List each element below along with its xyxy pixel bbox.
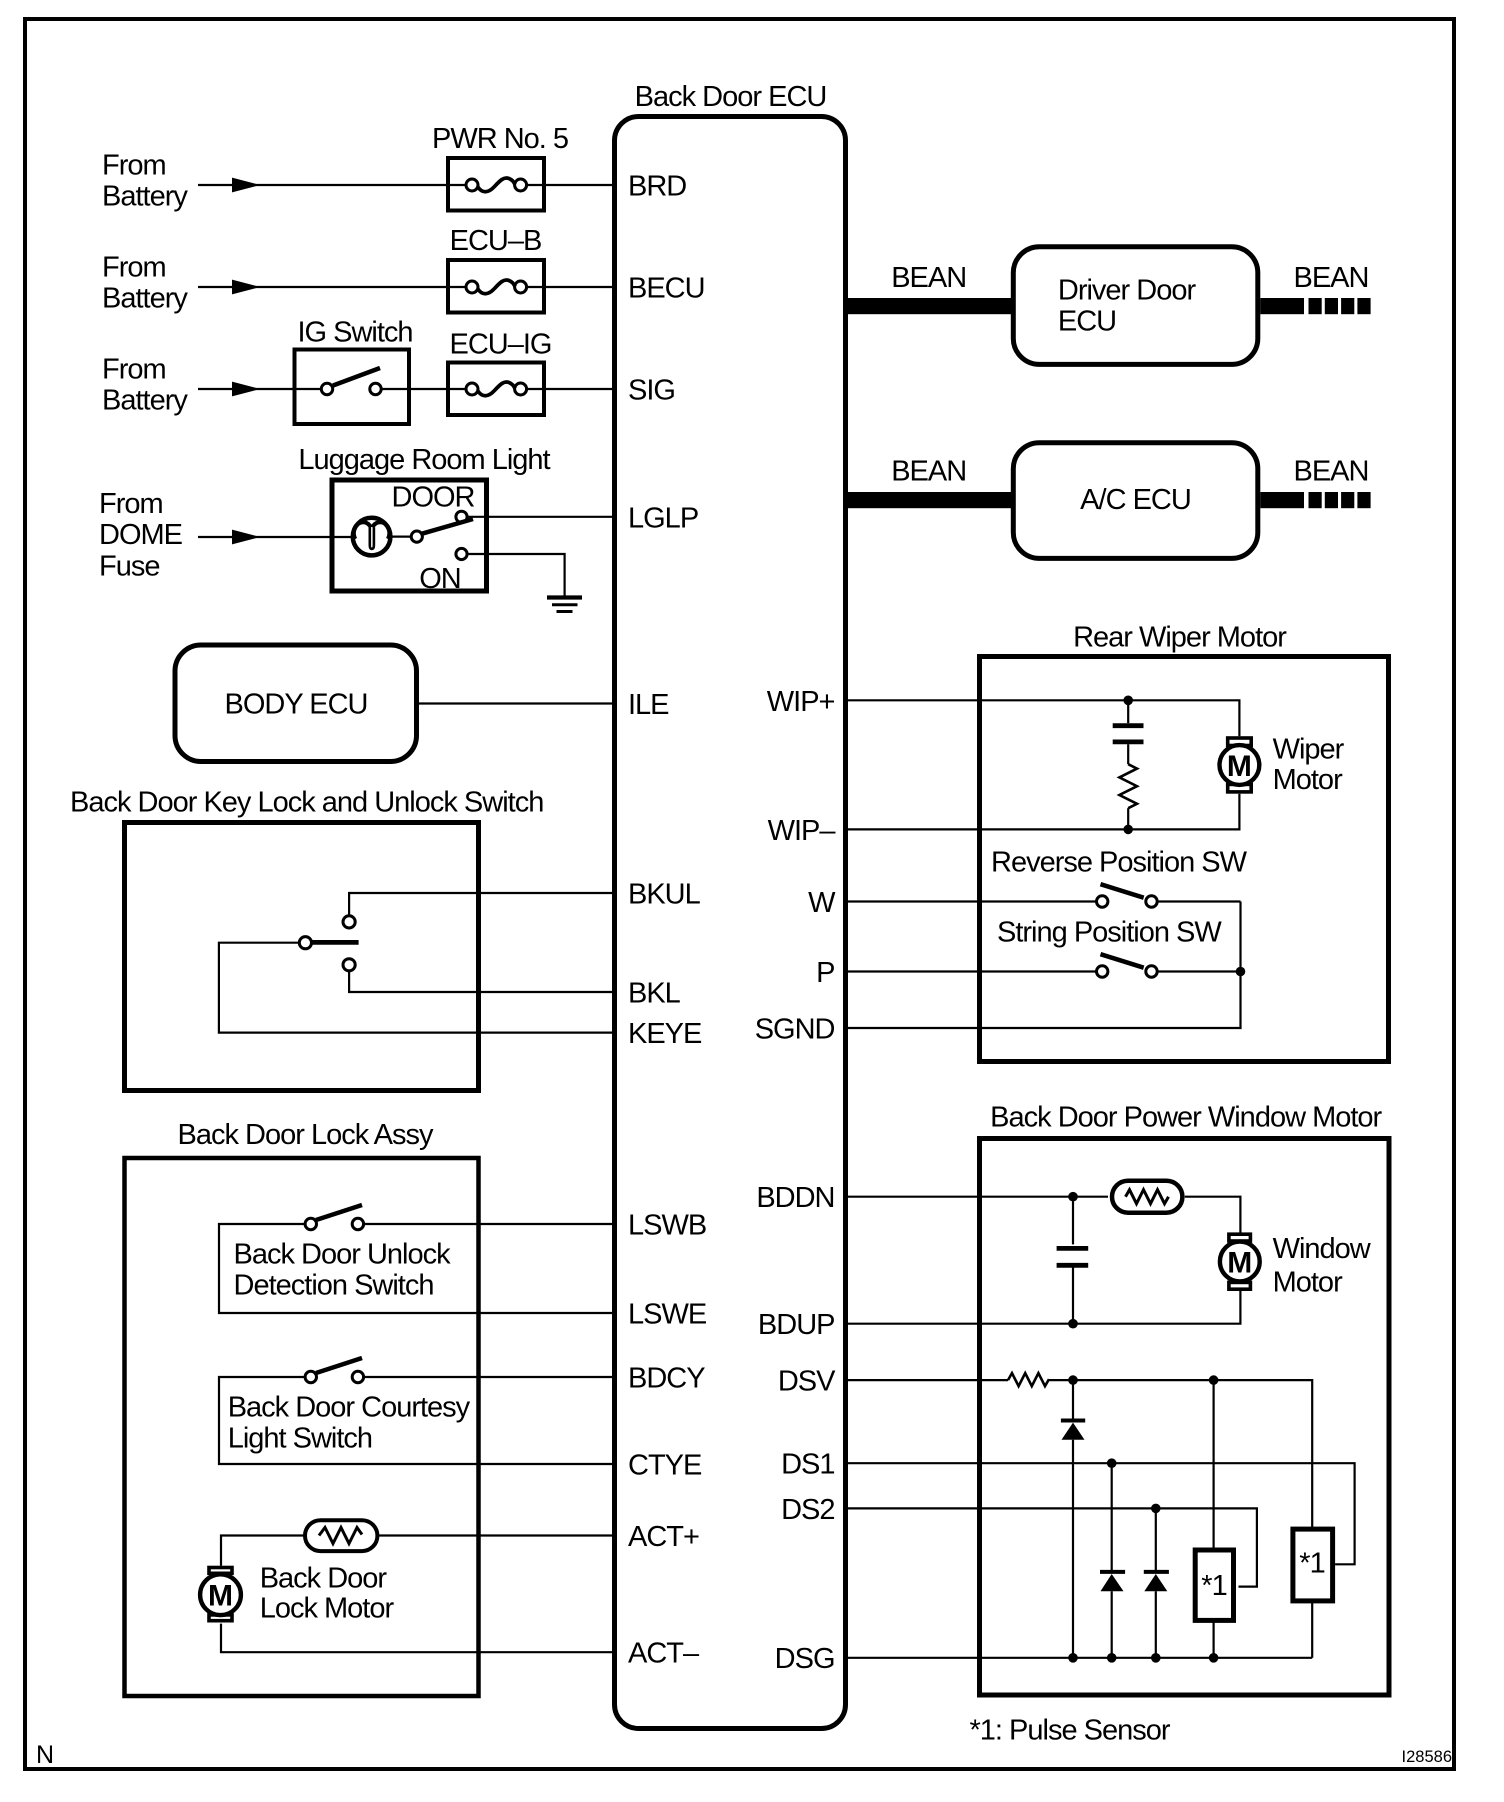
wire LGLP [467, 516, 614, 518]
svg-text:ECU–B: ECU–B [450, 225, 542, 257]
svg-text:BKUL: BKUL [628, 879, 701, 911]
svg-text:P: P [816, 957, 834, 989]
svg-text:BEAN: BEAN [891, 456, 966, 488]
svg-text:KEYE: KEYE [628, 1018, 702, 1050]
Body ECU box U2 [175, 645, 417, 762]
svg-text:DS1: DS1 [781, 1449, 834, 1481]
junction DSG / pulse sensor left [1209, 1653, 1219, 1663]
svg-text:WIP–: WIP– [768, 815, 837, 847]
luggage room light switch box [298, 444, 550, 595]
svg-text:BDDN: BDDN [756, 1182, 834, 1214]
lamp L1 luggage room light [353, 518, 391, 556]
svg-text:IG Switch: IG Switch [297, 317, 412, 349]
svg-text:LGLP: LGLP [628, 503, 698, 535]
wire LSWB [364, 1223, 615, 1225]
svg-text:DSV: DSV [778, 1366, 836, 1398]
junction DS1 / D2 [1107, 1458, 1117, 1468]
svg-text:Reverse Position SW: Reverse Position SW [991, 846, 1248, 878]
bus BEAN from ECU to Driver Door ECU [846, 298, 1012, 314]
wire ACT+ [221, 1536, 615, 1566]
switch S1 IG Switch [295, 317, 413, 425]
svg-text:BRD: BRD [628, 171, 686, 203]
ground [547, 598, 582, 612]
svg-text:Back Door Lock Assy: Back Door Lock Assy [178, 1119, 434, 1151]
rear wiper motor box [980, 622, 1389, 1062]
svg-text:From: From [102, 252, 166, 284]
wire battery to BECU [198, 280, 615, 295]
wire pulse sensor left feed [1212, 1380, 1214, 1550]
junction BDDN / C2 [1068, 1192, 1078, 1202]
svg-text:BODY ECU: BODY ECU [225, 689, 368, 721]
svg-text:Luggage Room Light: Luggage Room Light [298, 444, 550, 476]
bus BEAN from ECU to A/C ECU [846, 492, 1012, 508]
junction WIP+ / C1 [1123, 696, 1133, 706]
wire BKUL [349, 893, 614, 916]
junction BDUP / C2 [1068, 1319, 1078, 1329]
resistor R2 [1008, 1373, 1049, 1386]
svg-text:BEAN: BEAN [891, 262, 966, 294]
switch S2 key lock and unlock [299, 916, 358, 971]
wire KEYE [219, 943, 615, 1033]
bus BEAN right of A/C ECU (dashed continuation) [1260, 492, 1370, 508]
bus BEAN right of Driver Door ECU (dashed continuation) [1260, 298, 1370, 314]
wire DSV [846, 1379, 1009, 1381]
svg-text:BKL: BKL [628, 978, 681, 1010]
svg-text:From: From [102, 354, 166, 386]
svg-text:Lock Motor: Lock Motor [260, 1593, 395, 1625]
wire pulse sensor left to DSG [1212, 1620, 1214, 1657]
svg-text:SGND: SGND [755, 1014, 835, 1046]
junction DS2 / D3 [1151, 1504, 1161, 1514]
diode D2 [1100, 1463, 1125, 1658]
junction DSG / D3 [1151, 1653, 1161, 1663]
wire W [846, 900, 1241, 902]
wire battery to BRD [198, 178, 615, 193]
capacitor C1 [1113, 700, 1144, 764]
svg-text:A/C ECU: A/C ECU [1080, 484, 1191, 516]
svg-text:M: M [1227, 750, 1252, 783]
diode D1 [1061, 1380, 1085, 1658]
svg-text:LSWE: LSWE [628, 1299, 707, 1331]
wire CTYE loop (courtesy switch frame) [219, 1377, 615, 1464]
svg-text:DOOR: DOOR [392, 482, 475, 514]
svg-text:DSG: DSG [775, 1643, 835, 1675]
svg-text:Fuse: Fuse [99, 551, 159, 583]
resistor R1 [1119, 764, 1137, 808]
junction DSV / D1 [1068, 1375, 1078, 1385]
svg-text:BDUP: BDUP [758, 1309, 835, 1341]
wire DOME fuse to lamp [198, 530, 352, 545]
fuse F2 ECU-B [448, 225, 544, 313]
svg-text:DOME: DOME [99, 519, 183, 551]
svg-text:BECU: BECU [628, 273, 705, 305]
switch S4 back door courtesy light [228, 1358, 471, 1455]
svg-text:ACT–: ACT– [628, 1638, 700, 1670]
svg-text:From: From [102, 150, 166, 182]
switch S5 luggage door switch [411, 511, 473, 559]
svg-text:From: From [99, 488, 163, 520]
svg-text:Motor: Motor [1273, 1266, 1343, 1298]
wire BDDN [846, 1196, 1109, 1198]
junction DSV / pulse sensor left [1209, 1375, 1219, 1385]
circuit breaker CB1 (lock motor) [305, 1520, 377, 1551]
svg-text:BDCY: BDCY [628, 1363, 705, 1395]
svg-text:Back Door Power Window Motor: Back Door Power Window Motor [990, 1101, 1382, 1133]
A/C ECU box U4 [1013, 443, 1258, 559]
capacitor C2 [1057, 1197, 1089, 1324]
svg-text:Back Door Unlock: Back Door Unlock [234, 1239, 452, 1271]
wire P [846, 970, 1241, 972]
svg-text:M: M [1227, 1246, 1252, 1279]
back door power window motor box [980, 1101, 1390, 1695]
svg-text:N: N [36, 1741, 54, 1769]
node From Battery (BECU row) [102, 252, 188, 315]
svg-text:Driver Door: Driver Door [1058, 274, 1197, 306]
Back Door ECU U1 [615, 81, 846, 1729]
wire DSG [846, 1657, 1313, 1659]
svg-text:Rear Wiper Motor: Rear Wiper Motor [1073, 622, 1287, 654]
wire lamp to switch pivot [391, 535, 411, 537]
svg-text:Back Door ECU: Back Door ECU [635, 81, 827, 113]
wire DS1 [846, 1463, 1355, 1564]
wire BDUP [846, 1291, 1241, 1324]
back door key lock and unlock switch box [70, 787, 543, 1091]
junction DSG / D1 [1068, 1653, 1078, 1663]
diode D3 [1144, 1508, 1169, 1657]
svg-text:Back Door: Back Door [260, 1563, 388, 1595]
svg-text:ON: ON [419, 563, 461, 595]
svg-text:BEAN: BEAN [1294, 262, 1369, 294]
wire ILE [417, 702, 615, 704]
wire BDCY [364, 1376, 615, 1378]
wire battery to SIG [198, 382, 615, 397]
svg-text:ILE: ILE [628, 689, 669, 721]
motor M2 wiper motor [1220, 733, 1345, 796]
wire BKL [349, 971, 614, 992]
junction P / SGND branch [1236, 967, 1246, 977]
wire WIP- [846, 794, 1240, 830]
svg-text:PWR No. 5: PWR No. 5 [432, 123, 568, 155]
svg-text:DS2: DS2 [781, 1494, 834, 1526]
wire CB2 to window motor [1185, 1197, 1241, 1234]
svg-text:*1: Pulse Sensor: *1: Pulse Sensor [970, 1714, 1171, 1746]
svg-text:Window: Window [1273, 1233, 1372, 1265]
svg-text:Battery: Battery [102, 181, 188, 213]
node From Battery (BRD row) [102, 150, 188, 213]
svg-text:CTYE: CTYE [628, 1450, 702, 1482]
wire ACT- [221, 1624, 615, 1653]
junction DSG / D2 [1107, 1653, 1117, 1663]
fuse F3 ECU-IG [448, 329, 551, 416]
svg-text:M: M [208, 1580, 233, 1613]
wire LSWE loop (unlock detection switch frame) [219, 1224, 615, 1313]
wire R1 to WIP- [1127, 808, 1129, 829]
wire WIP+ [846, 700, 1240, 736]
svg-text:WIP+: WIP+ [767, 686, 835, 718]
back door lock assy box [125, 1119, 479, 1696]
svg-text:LSWB: LSWB [628, 1210, 706, 1242]
svg-text:Back Door Courtesy: Back Door Courtesy [228, 1392, 471, 1424]
node From Battery (SIG row) [102, 354, 188, 417]
svg-text:Detection Switch: Detection Switch [234, 1270, 434, 1302]
svg-text:*1: *1 [1201, 1570, 1226, 1602]
motor M3 window motor [1220, 1233, 1372, 1298]
svg-text:Light Switch: Light Switch [228, 1423, 372, 1455]
wire DSV to pulse sensors [1049, 1380, 1312, 1529]
wire DS2 [846, 1508, 1257, 1586]
switch S6 reverse position SW [991, 846, 1248, 907]
svg-text:Back Door Key Lock and Unlock: Back Door Key Lock and Unlock Switch [70, 787, 543, 819]
wire ON contact to ground [467, 554, 564, 598]
svg-text:I28586: I28586 [1402, 1748, 1452, 1766]
motor M1 back door lock motor [200, 1563, 394, 1625]
svg-text:*1: *1 [1299, 1548, 1324, 1580]
svg-text:ACT+: ACT+ [628, 1521, 699, 1553]
svg-text:ECU: ECU [1058, 305, 1116, 337]
fuse F1 PWR No. 5 [432, 123, 568, 211]
switch S3 back door unlock detection [234, 1205, 452, 1302]
svg-text:Wiper: Wiper [1273, 733, 1345, 765]
svg-text:W: W [808, 887, 836, 919]
circuit breaker CB2 (window motor) [1112, 1181, 1182, 1213]
switch S7 string position SW [997, 917, 1222, 978]
svg-text:Battery: Battery [102, 283, 188, 315]
pulse sensor left *1 [1195, 1550, 1233, 1620]
node From DOME Fuse [99, 488, 183, 583]
wire SGND [846, 902, 1241, 1029]
svg-text:Battery: Battery [102, 385, 188, 417]
svg-text:SIG: SIG [628, 375, 675, 407]
Driver Door ECU box U3 [1013, 247, 1258, 365]
svg-text:String Position SW: String Position SW [997, 917, 1222, 949]
svg-text:ECU–IG: ECU–IG [450, 329, 552, 361]
wire pulse sensor right to DSG [1311, 1601, 1313, 1658]
junction WIP- / R1 [1123, 825, 1133, 835]
svg-text:Motor: Motor [1273, 764, 1343, 796]
pulse sensor right *1 [1293, 1529, 1333, 1601]
svg-text:BEAN: BEAN [1294, 456, 1369, 488]
